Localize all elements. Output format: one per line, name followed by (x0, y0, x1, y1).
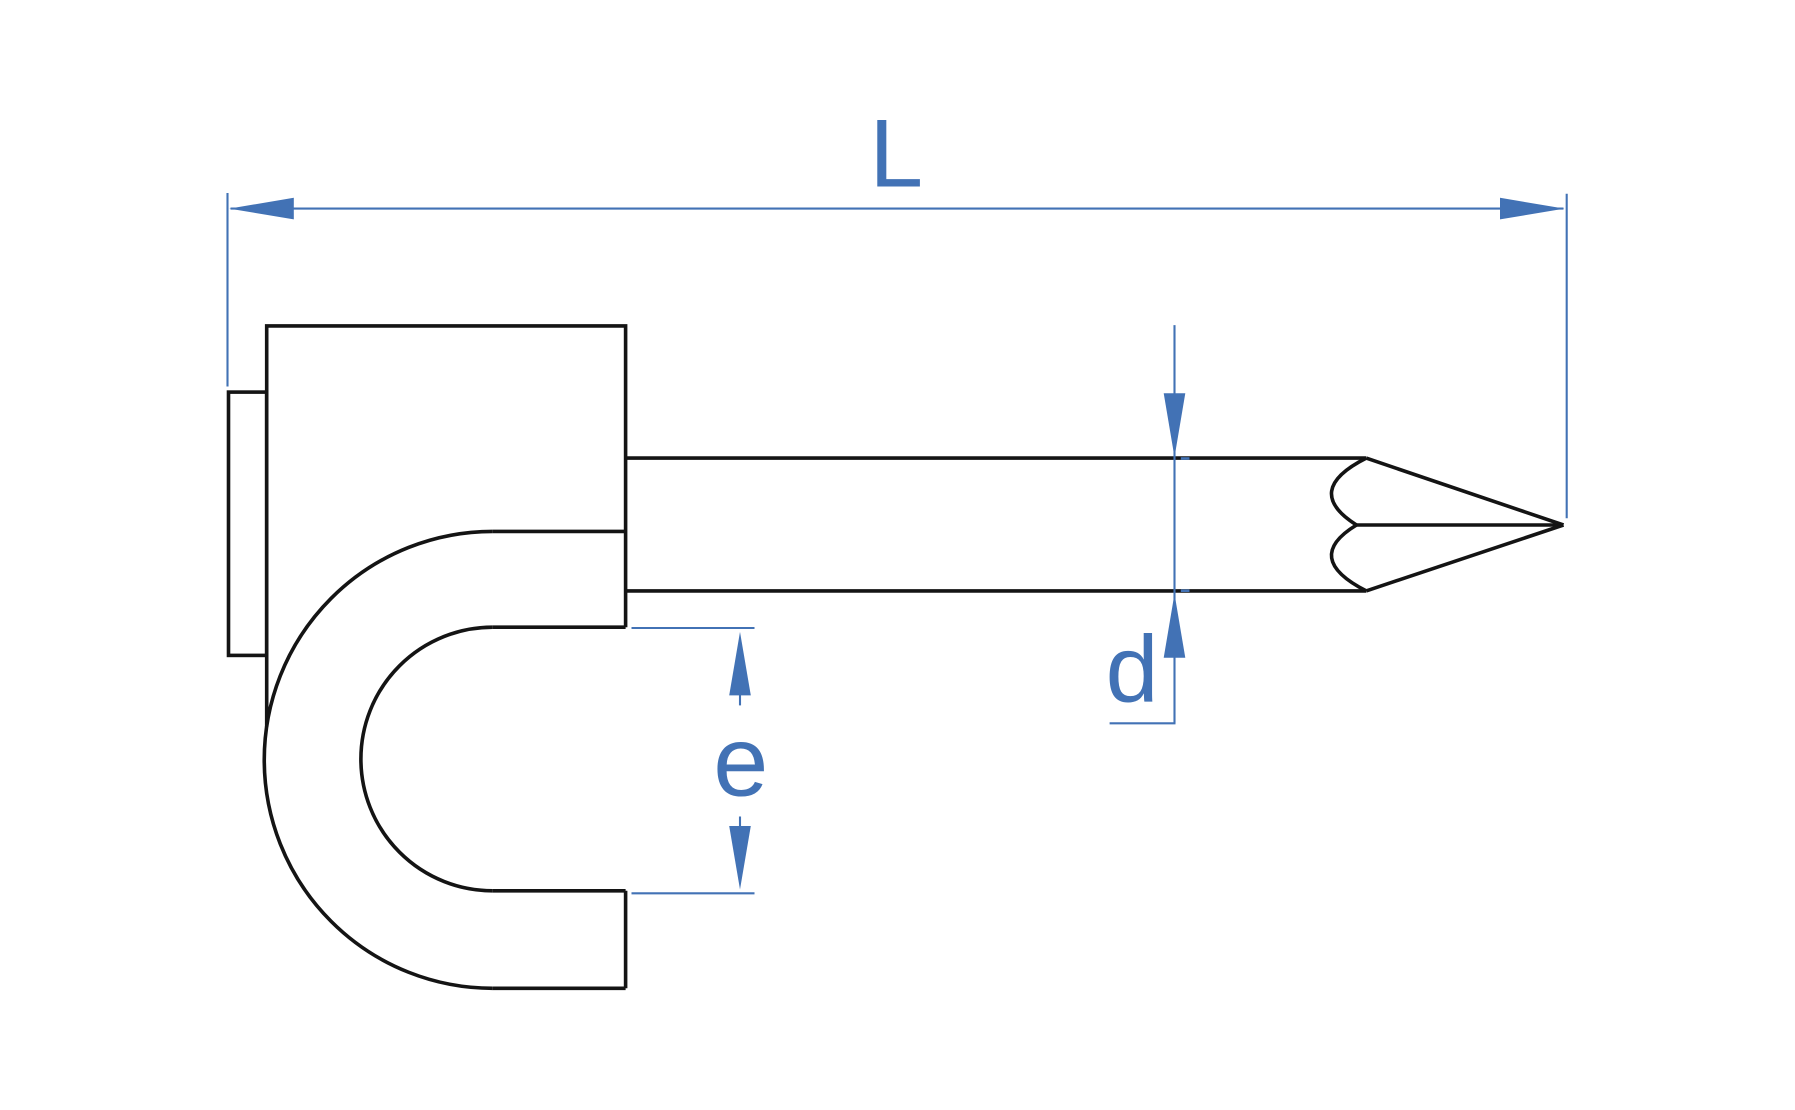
dimension d top tick (1181, 457, 1190, 460)
nail shaft top edge (626, 456, 1367, 460)
dimension d line (1173, 325, 1175, 723)
dimension d upper arrowhead (1164, 393, 1186, 457)
hook outer arc (264, 531, 492, 988)
dimension d lower arrowhead (1164, 594, 1186, 658)
dimension L left arrowhead (229, 198, 293, 220)
hook bottom line (493, 986, 626, 990)
dimension e top extension line (632, 627, 755, 629)
nail shaft bottom edge (626, 589, 1367, 593)
nail point top slant (1366, 458, 1563, 525)
dimension e lower arrowhead (729, 826, 751, 890)
dimension e upper arrow stub (739, 694, 741, 705)
hook inner bottom line (493, 889, 626, 893)
dimension e lower arrow stub (739, 817, 741, 828)
dimension L right arrowhead (1500, 198, 1564, 220)
dimension d leader underline (1110, 722, 1176, 724)
dimension e bottom extension line (632, 892, 755, 894)
nail point mid line (1357, 523, 1564, 527)
dimension e upper arrowhead (729, 632, 751, 696)
hook outer top line (493, 530, 626, 534)
svg-text:e: e (713, 706, 768, 817)
dimension L right extension line (1566, 194, 1568, 519)
dimension d bottom tick (1181, 589, 1190, 592)
hook foot right edge (624, 891, 628, 989)
clip flange rectangle (229, 392, 267, 655)
nail point upper arc (1331, 458, 1366, 525)
hook inner arc (361, 627, 493, 891)
hook inner top line (493, 625, 626, 629)
clip head outline (267, 326, 626, 727)
dimension L line (231, 208, 1564, 210)
dimension L left extension line (226, 193, 228, 387)
svg-text:L: L (869, 101, 923, 208)
svg-text:d: d (1106, 617, 1159, 723)
nail point bottom slant (1366, 525, 1563, 591)
nail point lower arc (1331, 525, 1366, 591)
